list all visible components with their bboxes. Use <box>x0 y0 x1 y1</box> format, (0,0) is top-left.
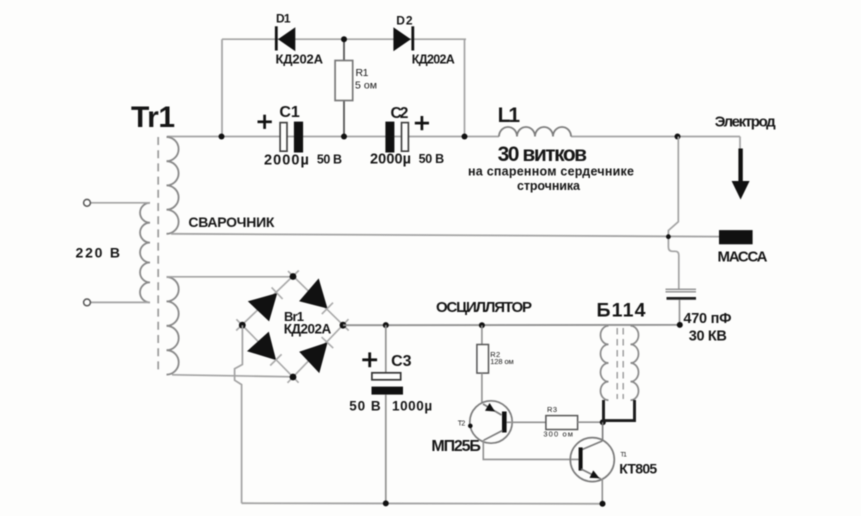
node junction Б114 primary / R3 / collector <box>600 419 606 425</box>
wire primary bottom lead <box>91 301 151 303</box>
wire primary top lead <box>91 202 151 204</box>
svg-text:C1: C1 <box>279 104 299 121</box>
svg-text:2000µ: 2000µ <box>264 153 309 169</box>
resistor R3 <box>543 405 602 439</box>
svg-text:5 ом: 5 ом <box>355 80 377 92</box>
transformer Б114 right winding <box>631 326 639 400</box>
node junction КТ805 emitter / bottom rail <box>600 501 606 507</box>
wire right vertical from D2 cathode to main wire <box>464 39 466 136</box>
wire main horizontal y=136.5 left part <box>167 136 499 138</box>
svg-text:Электрод: Электрод <box>715 113 776 130</box>
transformer Tr1 upper secondary winding <box>167 137 179 234</box>
svg-text:C2: C2 <box>391 105 409 122</box>
wire electrode drop <box>739 137 741 151</box>
svg-text:на спаренном сердечнике: на спаренном сердечнике <box>468 164 634 178</box>
transformer Б114 left winding <box>601 326 609 400</box>
bridge diode top-right cathode tick <box>322 303 333 314</box>
resistor R2 <box>477 325 514 403</box>
node junction C3 bottom <box>383 500 389 506</box>
transformer Tr1 lower secondary winding <box>167 277 179 375</box>
wire main horizontal y=136.5 right part after L1 <box>571 136 740 138</box>
inductor L1 <box>498 104 571 137</box>
svg-text:строчника: строчника <box>517 179 581 193</box>
wire bottom rail <box>242 502 606 505</box>
svg-text:300 ом: 300 ом <box>543 430 573 439</box>
bridge diode bottom-left cathode tick <box>270 354 281 365</box>
svg-text:220 В: 220 В <box>76 245 121 261</box>
capacitor C3 <box>349 325 432 503</box>
ground clamp МАССА <box>718 230 768 265</box>
svg-text:СВАРОЧНИК: СВАРОЧНИК <box>188 214 274 230</box>
transistor Q2 МП25Б <box>431 401 546 455</box>
transformer Б114 core dashed lines <box>616 328 618 399</box>
transformer Б114 thick bottom bracket <box>604 400 635 421</box>
svg-text:R1: R1 <box>356 67 369 79</box>
svg-text:50 В: 50 В <box>317 153 342 167</box>
node junction C3 top <box>383 322 389 328</box>
capacitor C1 <box>258 104 343 169</box>
svg-text:1000µ: 1000µ <box>392 398 432 413</box>
bridge diode top-left cathode tick <box>272 287 283 299</box>
svg-text:МАССА: МАССА <box>718 249 768 266</box>
node welder wire / massa junction <box>666 234 671 239</box>
svg-text:КД202А: КД202А <box>412 53 455 67</box>
bridge diode bottom-right cathode tick <box>322 337 334 348</box>
svg-text:Б114: Б114 <box>597 300 646 322</box>
svg-text:Tr1: Tr1 <box>131 101 175 134</box>
diode D2 <box>393 14 454 67</box>
svg-text:D2: D2 <box>396 14 413 28</box>
diode D1 <box>276 11 324 66</box>
svg-text:Т1: Т1 <box>620 451 627 458</box>
bridge diode bottom-right <box>299 342 327 373</box>
transformer Tr1 core (dashed) <box>157 137 159 373</box>
node junction dot top rail / R1 <box>341 36 347 42</box>
svg-text:470 пФ: 470 пФ <box>683 311 731 327</box>
transformer Tr1 primary winding <box>140 203 150 303</box>
svg-text:L1: L1 <box>498 104 521 127</box>
node junction dot main wire / D2 branch <box>462 134 468 140</box>
wire МП25Б collector to КТ805 base <box>483 440 578 459</box>
node junction dot main wire / R1 bottom <box>341 134 347 140</box>
svg-text:КТ805: КТ805 <box>619 460 657 476</box>
svg-text:30 КВ: 30 КВ <box>689 329 727 345</box>
wire welder output <box>171 234 719 237</box>
svg-text:D1: D1 <box>276 11 291 25</box>
bridge diode bottom-left <box>247 332 276 361</box>
resistor R1 <box>335 39 377 136</box>
svg-text:С3: С3 <box>391 353 412 370</box>
svg-text:30 витков: 30 витков <box>498 143 588 166</box>
wire electrode branch crossover jog down to HV cap <box>668 137 678 291</box>
svg-text:50 В: 50 В <box>419 152 445 166</box>
node bridge right corner <box>340 322 347 329</box>
capacitor 470 пФ <box>666 289 732 344</box>
wire oscillator supply rail <box>343 324 680 326</box>
terminal bottom circle <box>84 299 91 306</box>
wire left vertical from top rail to main wire <box>221 39 223 136</box>
node bridge left corner <box>239 322 246 329</box>
bridge diode top-right <box>299 278 327 308</box>
node junction dot main wire left <box>219 134 225 140</box>
transistor Q1 КТ805 <box>570 422 657 504</box>
svg-text:2000µ: 2000µ <box>370 152 411 168</box>
node junction 470pF / oscillator rail <box>677 322 683 328</box>
bridge diode top-left <box>248 293 277 321</box>
wire top rail y=39 <box>222 38 466 40</box>
svg-text:128 ом: 128 ом <box>490 357 514 366</box>
svg-text:ОСЦИЛЛЯТОР: ОСЦИЛЛЯТОР <box>436 299 532 316</box>
svg-text:МП25Б: МП25Б <box>431 438 481 455</box>
svg-text:R3: R3 <box>547 405 557 414</box>
node junction R2 top <box>479 322 485 328</box>
node junction dot main wire / electrode-cap branch <box>675 134 681 140</box>
wire lower secondary top to bridge <box>167 276 294 278</box>
wire bridge minus drop with crossover jog <box>235 325 243 503</box>
svg-text:КД202А: КД202А <box>284 321 332 336</box>
svg-text:КД202А: КД202А <box>276 52 324 67</box>
node bridge top corner <box>290 273 297 280</box>
svg-text:50 В: 50 В <box>349 398 381 413</box>
bridge rectifier Br1 edges <box>236 271 349 383</box>
capacitor C2 <box>370 105 444 168</box>
wire lower secondary bottom to bridge <box>172 375 293 377</box>
node bridge bottom corner <box>290 374 297 381</box>
svg-text:Т2: Т2 <box>458 420 466 427</box>
electrode arrow <box>732 149 750 200</box>
terminal top circle <box>84 199 91 206</box>
